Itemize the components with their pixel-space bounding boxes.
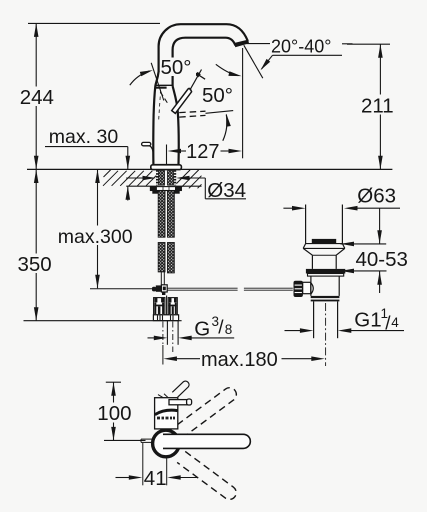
- spout body joint line: [155, 84, 172, 86]
- wire spout inner contour: [173, 38, 236, 86]
- hose sections inside shank: [159, 171, 165, 185]
- angle label 20-40 deg (spout outlet): [216, 36, 353, 78]
- spout up position (dashed): [177, 385, 239, 436]
- max.300 extension line: [90, 288, 153, 290]
- svg-text:40-53: 40-53: [356, 248, 408, 271]
- union nut block: [153, 315, 178, 321]
- plug upper cylinder sides: [305, 205, 307, 244]
- spout outlet face: [235, 40, 249, 48]
- plug cone: [303, 248, 312, 255]
- hose coupling left: [154, 298, 165, 315]
- hose centre joint line: [166, 296, 168, 315]
- faucet body left contour: [153, 72, 158, 165]
- faucet front view: [142, 24, 249, 169]
- pop-up rod clamp: [152, 287, 156, 292]
- lever grip side view: [169, 400, 187, 405]
- dimension 127 (spout projection): [167, 48, 243, 165]
- svg-text:4: 4: [391, 315, 399, 330]
- wire spout outer contour: [159, 24, 248, 72]
- svg-text:244: 244: [20, 86, 54, 109]
- svg-text:/: /: [218, 318, 224, 339]
- dimension G1 1/4 (tailpipe thread): [285, 306, 405, 335]
- svg-text:41: 41: [144, 467, 167, 490]
- spout swivel arc arrow: [216, 64, 238, 75]
- faucet base line: [153, 164, 179, 166]
- lever horizontal position (dashed): [179, 111, 205, 112]
- svg-text:350: 350: [18, 253, 52, 276]
- dimension diameter 63 (plug): [283, 185, 400, 211]
- lever axis extension line: [190, 70, 202, 91]
- rod ball joint housing: [303, 282, 311, 293]
- logo band dashes: [157, 417, 160, 420]
- plug cap seal: [312, 239, 336, 243]
- dimension Ø34 (faucet shank): [126, 176, 246, 202]
- faucet body right contour: [173, 86, 179, 165]
- lever raised ghost: [172, 381, 189, 397]
- cartridge joint band: [155, 410, 178, 414]
- svg-text:Ø34: Ø34: [207, 179, 246, 202]
- side view: dimension 100: [96, 382, 146, 440]
- spout down position (dashed): [177, 451, 239, 502]
- svg-text:100: 100: [97, 402, 131, 425]
- deck / countertop section: [27, 169, 392, 188]
- waste neck: [311, 255, 313, 269]
- wire deck top line: [27, 168, 392, 170]
- tailpipe: [313, 302, 315, 339]
- hose length reference line: [24, 320, 182, 322]
- lever rotated reference line: [151, 63, 164, 101]
- side view: faucet swivel: [141, 381, 250, 502]
- spout angle reference diagonal: [244, 45, 263, 78]
- shank thread right: [174, 170, 177, 185]
- dimension max. 30 (deck thickness): [45, 126, 130, 201]
- deck hatch left: [103, 170, 156, 186]
- side view: dimension 41: [116, 443, 198, 490]
- hose centerline right: [172, 322, 174, 353]
- swivel circle: [153, 430, 180, 457]
- wire top reference line (spout height datum): [28, 22, 160, 24]
- flexible hose right lower: [168, 243, 175, 273]
- dimension G3/8 (hose thread): [148, 314, 235, 341]
- svg-text:127: 127: [186, 141, 219, 163]
- lever handle raised: [172, 88, 192, 113]
- mounting nut tabs: [152, 191, 158, 194]
- pop-up waste assembly: [294, 205, 346, 367]
- flexible hose left upper: [158, 191, 165, 237]
- hose centerline left: [162, 322, 164, 346]
- svg-text:50°: 50°: [202, 84, 233, 107]
- wire deck bottom line: [126, 185, 156, 187]
- faucet body side view: [155, 398, 178, 429]
- svg-text:G1: G1: [354, 308, 381, 331]
- svg-text:50°: 50°: [161, 56, 192, 79]
- spout bar horizontal: [161, 434, 250, 448]
- angle label 50 deg (lever swivel): [130, 56, 196, 85]
- waste body: [310, 276, 312, 296]
- knurled knob: [294, 281, 303, 297]
- waste seal flange: [306, 269, 345, 274]
- angle label 50 deg (lever lift): [202, 84, 233, 141]
- dimension 211 (right vertical, spout outlet to deck): [347, 44, 397, 169]
- dimension 350 (left vertical, deck to hose end): [15, 170, 54, 321]
- mounting washer: [150, 187, 181, 191]
- svg-text:20°-40°: 20°-40°: [271, 36, 331, 56]
- faucet base flange: [151, 165, 182, 170]
- svg-text:211: 211: [361, 94, 394, 117]
- dimension 244 (left vertical): [17, 23, 54, 169]
- flexible hose right upper: [168, 191, 175, 237]
- svg-text:8: 8: [225, 322, 233, 337]
- shank thread left: [156, 170, 159, 185]
- dimension max.300 (deck to pop-up rod): [56, 170, 135, 289]
- waste body bottom rim: [311, 296, 340, 298]
- deck hatch right: [176, 170, 201, 188]
- faucet shank and hoses below deck: [24, 170, 293, 364]
- spout outlet extension line: [242, 48, 244, 158]
- G3/8 thread tube: [166, 321, 168, 345]
- dimension 40-53 (waste clamping range): [341, 208, 408, 293]
- waste centerline: [325, 303, 327, 366]
- svg-text:Ø63: Ø63: [357, 185, 396, 208]
- cartridge top bar: [155, 87, 166, 89]
- body interior contour (hidden line): [159, 90, 161, 120]
- plug lip: [303, 244, 305, 249]
- flexible hose left lower: [158, 243, 165, 272]
- pop-up rod side view: [141, 438, 153, 440]
- svg-text:max.300: max.300: [58, 226, 133, 248]
- dimension max.180 (faucet to waste): [163, 349, 324, 371]
- pop-up rod vertical link: [160, 272, 162, 285]
- pop-up lift knob: [142, 142, 151, 145]
- hose coupling right: [168, 298, 177, 315]
- lever end cross mark: [192, 71, 205, 79]
- svg-text:G: G: [194, 317, 210, 340]
- svg-text:max.180: max.180: [201, 349, 278, 371]
- pop-up horizontal rod: [167, 287, 237, 289]
- svg-text:max. 30: max. 30: [49, 126, 119, 148]
